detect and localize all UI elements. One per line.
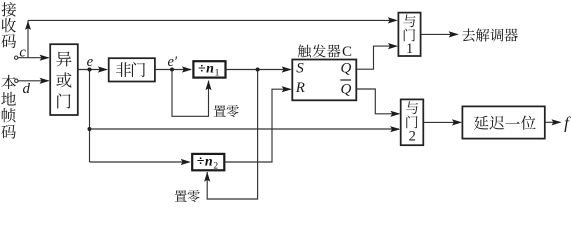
svg-text:S: S — [296, 60, 304, 76]
svg-text:e′: e′ — [167, 54, 177, 70]
junction dot on e drop — [88, 127, 92, 131]
input terminal d (circle) — [15, 79, 18, 82]
wire e' reset loop to divider n1 set-zero input — [172, 70, 212, 117]
wire top rail to AND gate 1 input — [28, 17, 398, 23]
wire e to divider n2 input — [90, 159, 191, 165]
wire AND1 output to demodulator — [421, 31, 459, 37]
node e junction dot — [88, 68, 92, 72]
wire e': NOT output to divider n1 — [155, 66, 192, 72]
label 置零 (set zero) for divider n2 — [175, 190, 200, 202]
wire Q-bar output to AND gate 2 — [356, 89, 400, 117]
svg-text:2: 2 — [409, 129, 416, 145]
flip-flop C (SR latch) box — [292, 60, 356, 101]
wire divider n2 output to flip-flop R — [224, 86, 291, 162]
divider ÷n2 — [192, 154, 224, 172]
wire c branch up to top rail — [25, 20, 31, 57]
wire AND2 output to delay block — [424, 119, 463, 125]
net label 接收码 (received code) — [2, 2, 17, 48]
wire Q output to AND gate 1 — [356, 43, 398, 69]
svg-text:R: R — [295, 80, 305, 96]
AND gate 1 与门1 — [398, 13, 420, 58]
divider ÷n1 — [193, 61, 225, 78]
svg-text:÷: ÷ — [197, 154, 205, 169]
node e' junction dot — [170, 68, 174, 72]
wire S-junction down to divider n2 set-zero — [204, 70, 258, 200]
wire delay output f — [545, 119, 562, 125]
wire e vertical drop — [89, 70, 91, 163]
input terminal c (circle) — [15, 56, 18, 59]
svg-text:d: d — [22, 81, 30, 97]
svg-text:1: 1 — [406, 41, 413, 57]
AND gate 2 与门2 — [401, 99, 424, 145]
svg-text:n: n — [206, 62, 214, 77]
flip-flop U1 触发器C label — [298, 44, 352, 60]
XOR gate 异或门 — [50, 44, 78, 115]
svg-text:e: e — [87, 54, 94, 70]
svg-text:C: C — [342, 44, 352, 60]
wire e to AND gate 2 lower input — [90, 126, 401, 132]
wire divider n1 output to flip-flop S — [226, 66, 292, 72]
wire d input to XOR gate — [18, 78, 50, 84]
svg-text:Q: Q — [341, 82, 352, 98]
wire c input to XOR gate — [18, 55, 50, 61]
svg-text:Q: Q — [341, 60, 352, 76]
net label 本地帧码 (local frame code) — [1, 75, 16, 139]
label 去解调器 (to demodulator) — [462, 28, 518, 41]
svg-text:2: 2 — [213, 161, 218, 171]
wire e: XOR output to NOT gate — [78, 66, 108, 72]
NOT gate 非门 — [109, 58, 155, 81]
svg-text:n: n — [205, 154, 213, 169]
delay block 延迟一位 (delay one bit) — [462, 106, 544, 138]
junction dot on S wire — [256, 68, 260, 72]
label 置零 (set zero) for divider n1 — [214, 105, 239, 117]
pin label Q-bar — [340, 80, 351, 98]
svg-text:÷: ÷ — [198, 61, 206, 76]
svg-text:1: 1 — [215, 69, 220, 79]
